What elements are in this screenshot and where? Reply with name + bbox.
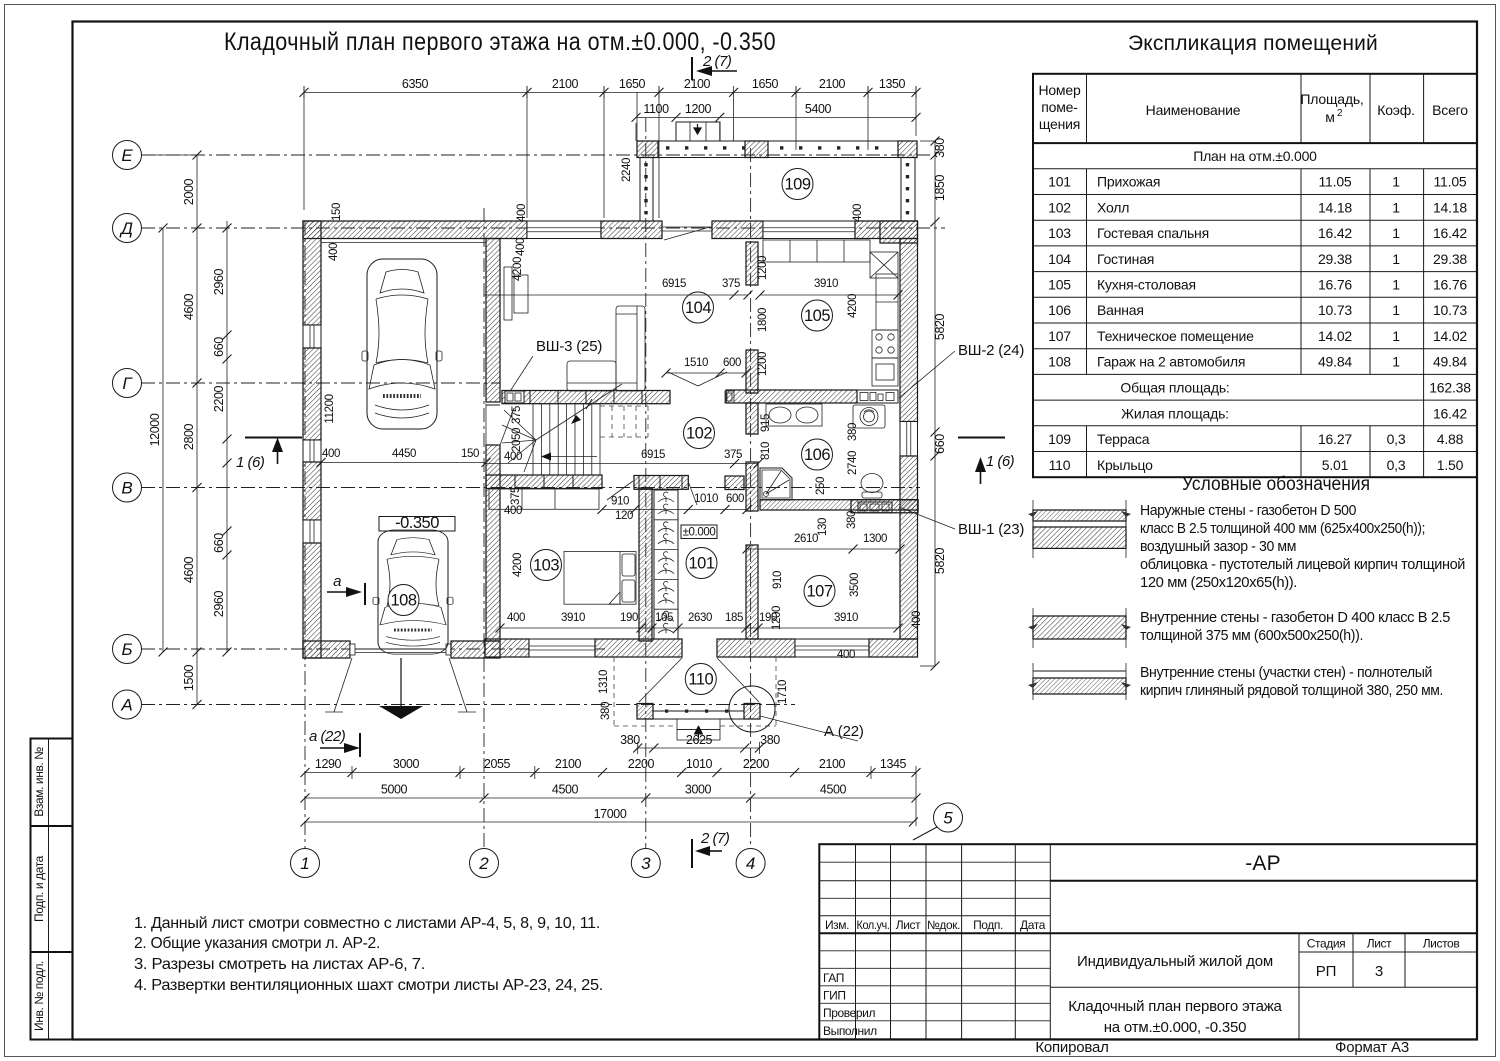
svg-text:4.88: 4.88 — [1437, 431, 1464, 447]
section mark a-22 — [309, 728, 360, 757]
partition axis4 upper seg1 — [746, 242, 758, 285]
svg-text:Внутренние стены - газобетон D: Внутренние стены - газобетон D 400 класс… — [1140, 609, 1450, 626]
svg-text:1510: 1510 — [684, 357, 708, 369]
title block — [819, 844, 1477, 1039]
legend symbol inner wall brick — [1028, 663, 1131, 700]
svg-text:1500: 1500 — [182, 664, 196, 691]
svg-text:1010: 1010 — [694, 493, 718, 505]
explication table — [1033, 74, 1477, 477]
svg-text:2100: 2100 — [684, 77, 711, 91]
wall above hall (stairs top) — [502, 391, 670, 404]
svg-text:2960: 2960 — [212, 268, 226, 295]
garage wall window c — [303, 520, 321, 543]
svg-text:107: 107 — [806, 583, 832, 601]
svg-text:108: 108 — [1048, 354, 1071, 370]
kitchen corner sink — [870, 252, 898, 278]
porch columns — [637, 704, 653, 720]
garage interior dims — [317, 203, 529, 467]
svg-text:Инв. № подл.: Инв. № подл. — [32, 961, 46, 1031]
house bottom wall corner — [869, 639, 918, 657]
svg-text:380: 380 — [620, 733, 640, 747]
vent boxes VSh-3 — [505, 391, 524, 403]
partition axis4 lower seg — [746, 545, 758, 639]
svg-text:0,3: 0,3 — [1387, 457, 1406, 473]
left dim col 12000 — [148, 224, 168, 657]
svg-text:Наружные стены - газобетон D 5: Наружные стены - газобетон D 500 — [1140, 502, 1356, 519]
garage left wall seg2 — [303, 348, 321, 440]
svg-text:№док.: №док. — [927, 918, 960, 932]
garage left wall — [303, 221, 321, 325]
svg-text:1: 1 — [300, 854, 309, 873]
garage driveway — [325, 658, 476, 719]
svg-text:1: 1 — [1392, 199, 1400, 215]
svg-text:ГАП: ГАП — [823, 971, 844, 985]
svg-text:3910: 3910 — [561, 612, 585, 624]
svg-text:Копировал: Копировал — [1035, 1039, 1108, 1056]
right wall window — [900, 422, 918, 457]
room 102 bubble — [684, 418, 715, 449]
room 108 bubble — [388, 585, 419, 616]
terrace top wall — [637, 141, 917, 158]
svg-text:3: 3 — [641, 854, 651, 873]
svg-text:Стадия: Стадия — [1307, 937, 1346, 951]
svg-text:660: 660 — [212, 337, 226, 357]
svg-text:м: м — [1325, 109, 1334, 125]
svg-text:190: 190 — [620, 612, 638, 624]
stub wall near hall — [725, 476, 744, 490]
svg-text:1: 1 — [1392, 302, 1400, 318]
svg-text:толщиной 375 мм (600х500х250(h: толщиной 375 мм (600х500х250(h)). — [1140, 627, 1363, 644]
svg-text:2: 2 — [1337, 108, 1343, 119]
svg-text:104: 104 — [1048, 251, 1071, 267]
svg-text:2610: 2610 — [794, 533, 818, 545]
svg-text:49.84: 49.84 — [1318, 354, 1352, 370]
svg-text:16.42: 16.42 — [1318, 225, 1352, 241]
svg-text:Подп.: Подп. — [973, 918, 1003, 932]
zero level mark — [681, 525, 717, 539]
svg-text:В: В — [121, 479, 132, 498]
svg-text:14.18: 14.18 — [1433, 199, 1467, 215]
svg-text:1200: 1200 — [685, 102, 712, 116]
wall 106-107 brick — [760, 500, 918, 510]
svg-text:щения: щения — [1039, 116, 1080, 132]
svg-text:16.42: 16.42 — [1433, 225, 1467, 241]
svg-text:1: 1 — [1392, 174, 1400, 190]
svg-text:Гостевая спальня: Гостевая спальня — [1097, 225, 1209, 241]
svg-text:11.05: 11.05 — [1319, 174, 1352, 190]
terrace left wall — [640, 158, 653, 222]
legend text outer wall — [1140, 502, 1465, 591]
svg-text:10.73: 10.73 — [1318, 302, 1352, 318]
right wall upper — [900, 239, 918, 422]
svg-text:2240: 2240 — [621, 158, 633, 182]
svg-text:2100: 2100 — [555, 757, 582, 771]
svg-text:1650: 1650 — [619, 77, 646, 91]
bath dims — [760, 414, 859, 536]
terrace right wall — [901, 158, 915, 222]
room 106 bubble — [802, 439, 833, 470]
notes — [134, 915, 603, 994]
svg-text:400: 400 — [852, 204, 864, 222]
legend text inner wall brick — [1140, 664, 1443, 699]
svg-text:Лист: Лист — [896, 918, 921, 932]
svg-text:915: 915 — [760, 414, 772, 432]
label VSh-1 — [899, 507, 1024, 538]
svg-text:кирпич глиняный рядовой толщин: кирпич глиняный рядовой толщиной 380, 25… — [1140, 682, 1443, 699]
kitchen cabinets top row — [763, 240, 870, 262]
partition axis4 upper seg2 — [746, 350, 758, 393]
node 5 callout — [913, 803, 963, 840]
svg-text:400: 400 — [328, 243, 340, 261]
svg-text:4600: 4600 — [182, 556, 196, 583]
svg-text:250: 250 — [815, 477, 827, 495]
porch slab and steps — [637, 710, 760, 741]
svg-text:Терраса: Терраса — [1097, 431, 1150, 447]
svg-text:1.50: 1.50 — [1437, 457, 1464, 473]
legend symbol outer wall — [1028, 500, 1131, 558]
axis bubbles left — [113, 141, 142, 170]
svg-text:4500: 4500 — [552, 783, 579, 797]
svg-text:16.76: 16.76 — [1433, 276, 1467, 292]
svg-text:4500: 4500 — [820, 783, 847, 797]
svg-text:а (22): а (22) — [309, 728, 346, 745]
svg-text:11.05: 11.05 — [1434, 174, 1467, 190]
svg-text:400: 400 — [515, 238, 527, 256]
svg-text:150: 150 — [331, 203, 343, 221]
kitchen oven — [872, 358, 898, 386]
svg-text:Проверил: Проверил — [823, 1006, 875, 1020]
svg-text:110: 110 — [1049, 457, 1071, 473]
double sink — [766, 404, 822, 426]
svg-text:29.38: 29.38 — [1433, 251, 1467, 267]
garage wall window a — [303, 325, 321, 348]
svg-text:Листов: Листов — [1423, 937, 1460, 951]
svg-text:4200: 4200 — [847, 294, 859, 318]
svg-text:ВШ-3 (25): ВШ-3 (25) — [536, 338, 602, 355]
car 2 — [373, 530, 453, 654]
svg-text:1290: 1290 — [315, 757, 342, 771]
svg-text:облицовка - пустотелый лицевой: облицовка - пустотелый лицевой кирпич то… — [1140, 556, 1465, 573]
svg-text:2: 2 — [478, 854, 489, 873]
svg-text:2050: 2050 — [511, 428, 523, 452]
top dim row 1 — [300, 77, 921, 218]
svg-text:105: 105 — [804, 307, 830, 325]
svg-text:120: 120 — [615, 510, 633, 522]
svg-text:6915: 6915 — [641, 449, 665, 461]
svg-text:4600: 4600 — [182, 293, 196, 320]
svg-text:1850: 1850 — [933, 174, 947, 201]
svg-text:49.84: 49.84 — [1433, 354, 1467, 370]
svg-text:380: 380 — [933, 138, 947, 158]
svg-text:Техническое помещение: Техническое помещение — [1097, 328, 1254, 344]
car 1 — [362, 259, 442, 429]
svg-text:660: 660 — [933, 434, 947, 454]
garage-house shared wall upper — [486, 239, 500, 403]
svg-text:2960: 2960 — [212, 590, 226, 617]
kitchen stove — [872, 330, 898, 358]
axis bubbles bottom — [291, 849, 320, 878]
left dim col main — [141, 151, 202, 710]
svg-text:Всего: Всего — [1432, 102, 1468, 118]
room 103 dims — [504, 505, 524, 577]
svg-text:105: 105 — [1048, 276, 1071, 292]
svg-text:3000: 3000 — [393, 757, 420, 771]
svg-text:400: 400 — [504, 505, 522, 517]
svg-text:1650: 1650 — [752, 77, 779, 91]
svg-text:Гараж на 2 автомобиля: Гараж на 2 автомобиля — [1097, 354, 1245, 370]
garage bottom wall left block — [303, 641, 350, 658]
svg-text:1350: 1350 — [879, 77, 906, 91]
svg-text:400: 400 — [322, 448, 340, 460]
svg-text:Дата: Дата — [1020, 918, 1046, 932]
level mark garage — [379, 514, 455, 532]
svg-text:101: 101 — [688, 555, 714, 573]
right dim col — [920, 137, 947, 671]
svg-text:4450: 4450 — [392, 448, 416, 460]
svg-text:1200: 1200 — [771, 606, 783, 630]
svg-text:2100: 2100 — [819, 77, 846, 91]
bottom interior dim row — [496, 611, 924, 633]
svg-text:1300: 1300 — [863, 533, 887, 545]
sofa room 104 — [567, 306, 645, 391]
svg-text:103: 103 — [1048, 225, 1071, 241]
svg-text:3910: 3910 — [814, 278, 838, 290]
garage bottom wall right block — [451, 641, 500, 658]
section mark 2-7 top — [692, 53, 737, 80]
house bottom window 2 — [795, 639, 869, 657]
closet left wall — [639, 488, 652, 641]
stair dashed landing — [600, 406, 648, 437]
svg-text:105: 105 — [655, 612, 673, 624]
svg-text:2055: 2055 — [484, 757, 511, 771]
house bottom wall seg3 — [717, 639, 795, 657]
house bottom wall seg2 — [595, 639, 682, 657]
bed room 103 — [564, 552, 636, 605]
top wall row Д segment 3 — [712, 221, 763, 239]
room 110 bubble — [685, 664, 716, 695]
top wall row Д segment garage — [303, 221, 527, 239]
section mark 1-6 left — [236, 438, 302, 472]
room 104 dims — [484, 256, 903, 376]
svg-text:1: 1 — [1392, 225, 1400, 241]
svg-text:Крыльцо: Крыльцо — [1097, 457, 1153, 473]
porch side dims — [598, 606, 789, 720]
leader diagonals hall dims — [607, 481, 697, 505]
svg-text:1800: 1800 — [757, 308, 769, 332]
svg-text:Экспликация помещений: Экспликация помещений — [1128, 32, 1378, 55]
svg-text:Подп. и дата: Подп. и дата — [32, 855, 46, 922]
svg-text:2 (7): 2 (7) — [700, 830, 730, 847]
svg-text:5.01: 5.01 — [1322, 457, 1349, 473]
svg-text:6915: 6915 — [662, 278, 686, 290]
svg-text:109: 109 — [1048, 431, 1071, 447]
room 103 bubble — [531, 550, 562, 581]
wall 105-106 — [726, 390, 857, 403]
hall top wall — [634, 476, 688, 490]
garage left wall seg4 — [303, 543, 321, 658]
top dim row 2 — [632, 102, 921, 141]
svg-text:1200: 1200 — [757, 256, 769, 280]
svg-text:А: А — [120, 696, 132, 715]
garage inner leaf line — [321, 242, 486, 244]
svg-text:130: 130 — [817, 518, 829, 536]
svg-text:14.18: 14.18 — [1318, 199, 1352, 215]
svg-text:4200: 4200 — [512, 553, 524, 577]
svg-text:РП: РП — [1316, 963, 1336, 980]
room 107 bubble — [804, 576, 835, 607]
section mark 1-6 right — [958, 438, 1015, 485]
svg-text:29.38: 29.38 — [1318, 251, 1352, 267]
svg-text:Кухня-столовая: Кухня-столовая — [1097, 276, 1196, 292]
svg-text:16.42: 16.42 — [1433, 405, 1467, 421]
svg-text:910: 910 — [611, 496, 629, 508]
svg-text:106: 106 — [804, 446, 830, 464]
stairs — [486, 384, 622, 475]
room 104 bubble — [683, 292, 714, 323]
svg-text:104: 104 — [685, 299, 711, 317]
svg-text:400: 400 — [504, 451, 522, 463]
right wall top corner — [880, 221, 918, 243]
svg-text:380: 380 — [847, 423, 859, 441]
svg-text:План на отм.±0.000: План на отм.±0.000 — [1193, 148, 1317, 164]
svg-text:380: 380 — [600, 702, 612, 720]
axis grid lines — [141, 118, 945, 849]
section mark 2-7 bottom — [692, 830, 730, 868]
svg-text:2100: 2100 — [552, 77, 579, 91]
svg-text:162.38: 162.38 — [1429, 380, 1471, 396]
top wall row Д segment 2 — [601, 221, 662, 239]
svg-text:400: 400 — [911, 611, 923, 629]
title block texts — [823, 852, 1459, 1056]
svg-text:101: 101 — [1048, 174, 1071, 190]
svg-text:1: 1 — [1392, 328, 1400, 344]
svg-text:1310: 1310 — [598, 670, 610, 694]
porch dashed outline — [614, 657, 776, 726]
hall dims — [598, 493, 752, 522]
svg-text:Д: Д — [119, 219, 133, 238]
svg-text:3500: 3500 — [849, 573, 861, 597]
svg-text:400: 400 — [507, 612, 525, 624]
svg-text:Жилая площадь:: Жилая площадь: — [1121, 405, 1229, 421]
svg-text:5820: 5820 — [933, 547, 947, 574]
svg-text:Взам. инв. №: Взам. инв. № — [32, 747, 46, 817]
svg-text:1: 1 — [1392, 276, 1400, 292]
garage-house shared wall lower — [486, 445, 500, 641]
svg-text:2740: 2740 — [847, 451, 859, 475]
svg-text:Индивидуальный жилой дом: Индивидуальный жилой дом — [1077, 953, 1273, 970]
svg-text:Площадь,: Площадь, — [1300, 91, 1363, 107]
house bottom wall seg1 — [485, 639, 529, 657]
svg-text:2100: 2100 — [819, 757, 846, 771]
svg-text:16.27: 16.27 — [1318, 431, 1352, 447]
stair walk line — [536, 384, 622, 440]
svg-text:Гостиная: Гостиная — [1097, 251, 1154, 267]
svg-text:Кол.уч.: Кол.уч. — [857, 918, 890, 932]
svg-text:2625: 2625 — [686, 733, 713, 747]
svg-text:106: 106 — [1048, 302, 1071, 318]
svg-text:1 (6): 1 (6) — [986, 453, 1015, 470]
svg-text:ВШ-1 (23): ВШ-1 (23) — [958, 521, 1024, 538]
svg-text:поме-: поме- — [1041, 99, 1078, 115]
svg-text:Внутренние стены (участки стен: Внутренние стены (участки стен) - полнот… — [1140, 664, 1432, 681]
svg-text:2. Общие указания смотри л. АР: 2. Общие указания смотри л. АР-2. — [134, 935, 380, 952]
svg-text:6350: 6350 — [402, 77, 429, 91]
garage wall window b — [303, 440, 321, 462]
svg-text:2200: 2200 — [212, 385, 226, 412]
label VSh-3 — [505, 338, 602, 399]
right wall lower — [900, 456, 918, 639]
svg-text:2800: 2800 — [182, 423, 196, 450]
svg-text:а: а — [333, 573, 341, 590]
partition axis4 seg4 — [746, 462, 758, 511]
stair dims — [504, 406, 523, 505]
svg-text:810: 810 — [760, 442, 772, 460]
room 102 dims — [484, 357, 763, 468]
svg-text:±0.000: ±0.000 — [683, 527, 716, 539]
svg-text:600: 600 — [723, 357, 741, 369]
svg-text:17000: 17000 — [594, 807, 627, 821]
garage door to house — [486, 405, 514, 445]
svg-text:660: 660 — [212, 533, 226, 553]
left dim col detail — [212, 221, 232, 657]
svg-text:108: 108 — [390, 592, 416, 610]
house bottom window 1 — [529, 639, 595, 657]
svg-text:120 мм (250х120х65(h)).: 120 мм (250х120х65(h)). — [1140, 574, 1297, 591]
svg-text:185: 185 — [725, 612, 743, 624]
svg-text:3: 3 — [1375, 963, 1383, 980]
svg-text:Общая площадь:: Общая площадь: — [1120, 380, 1229, 396]
b radiator symbol — [725, 391, 734, 403]
garage door opening — [350, 644, 451, 655]
svg-text:107: 107 — [1048, 328, 1071, 344]
terrace dim 2240 — [621, 92, 637, 182]
svg-text:102: 102 — [1048, 199, 1071, 215]
svg-text:5400: 5400 — [805, 102, 832, 116]
svg-text:10.73: 10.73 — [1433, 302, 1467, 318]
svg-text:1200: 1200 — [757, 352, 769, 376]
svg-text:2 (7): 2 (7) — [702, 53, 732, 70]
svg-text:Условные обозначения: Условные обозначения — [1182, 474, 1370, 495]
svg-text:Кладочный план первого этажа н: Кладочный план первого этажа на отм.±0.0… — [224, 28, 776, 56]
svg-text:1: 1 — [1392, 251, 1400, 267]
svg-text:375: 375 — [722, 278, 740, 290]
svg-text:Коэф.: Коэф. — [1377, 102, 1415, 118]
room 109 bubble — [782, 169, 813, 200]
svg-text:воздушный зазор - 30 мм: воздушный зазор - 30 мм — [1140, 538, 1296, 555]
svg-text:класс В 2.5 толщиной 400 мм (6: класс В 2.5 толщиной 400 мм (625х400х250… — [1140, 520, 1425, 537]
label A-22 — [760, 716, 864, 741]
svg-text:1345: 1345 — [880, 757, 907, 771]
svg-text:1 (6): 1 (6) — [236, 454, 265, 471]
svg-text:1: 1 — [1392, 354, 1400, 370]
svg-text:3000: 3000 — [685, 783, 712, 797]
shower — [760, 468, 792, 500]
svg-text:4200: 4200 — [512, 257, 524, 281]
svg-text:600: 600 — [726, 493, 744, 505]
svg-text:109: 109 — [784, 176, 810, 194]
stair bottom wall — [486, 475, 602, 489]
svg-text:375: 375 — [511, 406, 523, 424]
top wall corner right — [855, 221, 918, 239]
svg-text:1. Данный лист смотри совместн: 1. Данный лист смотри совместно с листам… — [134, 915, 600, 932]
svg-text:14.02: 14.02 — [1433, 328, 1467, 344]
garage left wall seg3 — [303, 462, 321, 520]
svg-text:3. Разрезы смотреть на листах: 3. Разрезы смотреть на листах АР-6, 7. — [134, 956, 425, 973]
svg-text:910: 910 — [772, 571, 784, 589]
svg-text:Изм.: Изм. — [825, 918, 849, 932]
terrace door threshold — [662, 227, 712, 240]
svg-text:1010: 1010 — [686, 757, 713, 771]
